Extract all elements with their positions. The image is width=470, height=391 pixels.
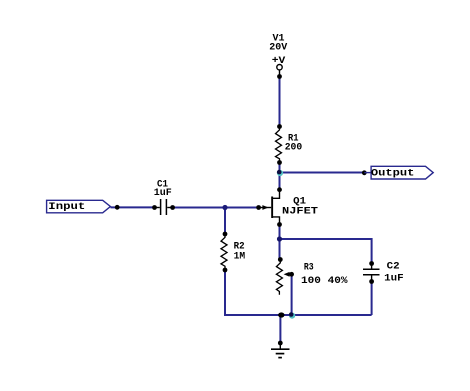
resistor R1 [276, 124, 303, 165]
wire output tap [280, 172, 365, 174]
wire source junction right to C2 top [280, 239, 372, 264]
svg-text:100 40%: 100 40% [301, 276, 348, 287]
resistor R2 [221, 232, 245, 273]
junction output tap [277, 170, 283, 176]
wire C2 bottom to rail [371, 282, 373, 316]
junction source C2 tap [277, 236, 282, 241]
svg-text:1uF: 1uF [384, 274, 404, 285]
wire input to gate [111, 206, 155, 208]
wire C1 to gate [173, 207, 259, 209]
output pin dot [362, 170, 367, 175]
junction ground tap [278, 312, 284, 317]
capacitor C1 [152, 179, 175, 215]
capacitor C2 [363, 261, 404, 284]
wire rail to ground [279, 315, 281, 343]
svg-text:20V: 20V [269, 43, 287, 54]
wire power V1 to R1 top [279, 77, 281, 128]
svg-text:NJFET: NJFET [282, 206, 318, 217]
wire Q1 source down to R3 top [279, 225, 281, 261]
potentiometer R3 [276, 257, 347, 295]
wire R3 wiper down to rail [291, 274, 293, 315]
transistor Q1 NJFET [256, 187, 318, 227]
svg-text:1M: 1M [234, 252, 246, 263]
svg-text:R3: R3 [304, 262, 314, 273]
svg-text:C2: C2 [387, 261, 400, 272]
svg-text:1uF: 1uF [154, 188, 172, 199]
input pin dot [115, 205, 120, 210]
terminal Input flag [47, 200, 111, 213]
wire input junction down to R2 [224, 208, 226, 235]
junction wiper rail tap [289, 312, 295, 319]
wire R2 bottom to ground rail [225, 270, 372, 315]
svg-text:200: 200 [285, 143, 303, 154]
svg-text:Output: Output [371, 168, 415, 179]
terminal Output flag [364, 166, 433, 179]
ground [271, 341, 290, 358]
wire R1 bottom to Q1 drain [279, 163, 281, 191]
junction input R2 tap [222, 205, 227, 210]
svg-text:+V: +V [272, 56, 286, 67]
power terminal V1 +V [269, 33, 287, 79]
svg-text:Input: Input [48, 202, 85, 213]
